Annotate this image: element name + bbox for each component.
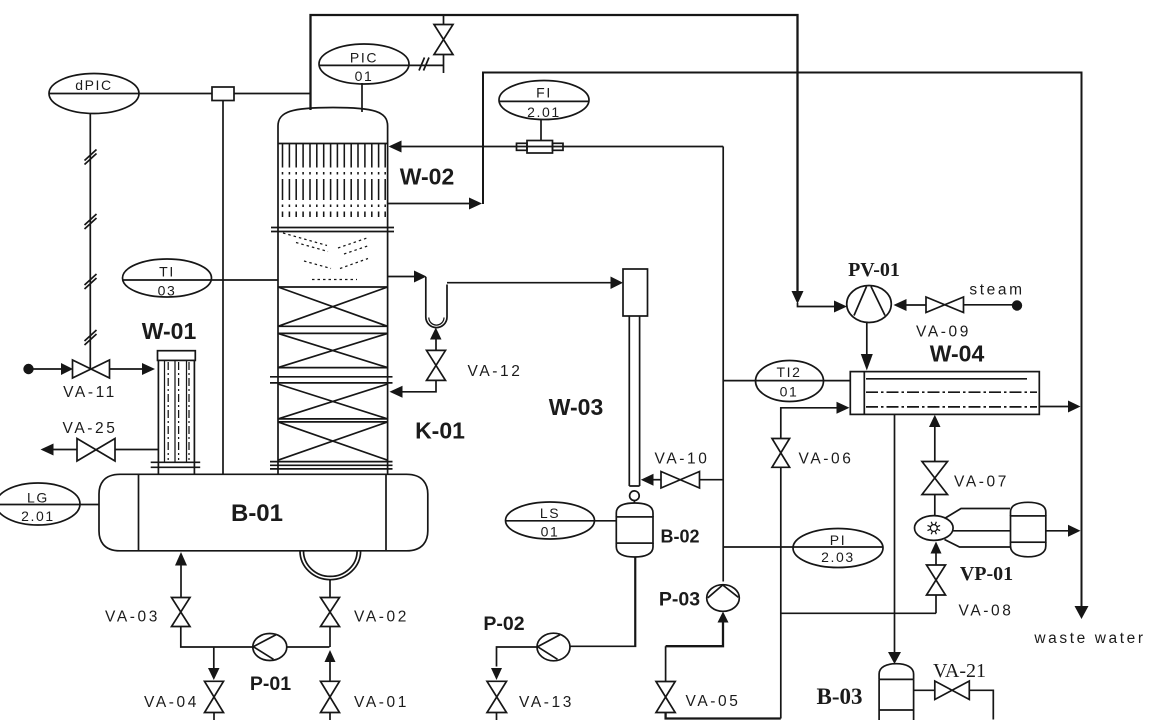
svg-text:VA-13: VA-13: [519, 694, 574, 711]
svg-text:VA-07: VA-07: [954, 474, 1009, 491]
svg-text:PI: PI: [830, 532, 846, 548]
svg-text:VA-06: VA-06: [799, 451, 854, 468]
svg-text:P-03: P-03: [659, 589, 700, 611]
svg-text:VA-01: VA-01: [354, 694, 409, 711]
svg-text:B-01: B-01: [231, 500, 283, 527]
svg-text:K-01: K-01: [415, 418, 465, 444]
svg-text:B-03: B-03: [817, 684, 863, 709]
svg-text:waste water: waste water: [1033, 630, 1145, 647]
svg-text:01: 01: [541, 524, 560, 540]
svg-text:W-04: W-04: [930, 341, 985, 367]
svg-text:VA-10: VA-10: [655, 451, 710, 468]
svg-text:2.03: 2.03: [821, 549, 855, 565]
svg-text:P-02: P-02: [483, 613, 524, 635]
svg-text:VA-02: VA-02: [354, 609, 409, 626]
svg-text:VA-09: VA-09: [916, 324, 971, 341]
svg-text:W-03: W-03: [549, 394, 604, 420]
svg-text:P-01: P-01: [250, 673, 291, 695]
svg-text:VA-11: VA-11: [63, 384, 117, 401]
svg-text:2.01: 2.01: [21, 508, 55, 524]
svg-text:TI2: TI2: [776, 364, 801, 380]
svg-text:VA-04: VA-04: [144, 694, 199, 711]
svg-text:LS: LS: [540, 505, 560, 521]
svg-text:PIC: PIC: [350, 50, 378, 66]
svg-text:VA-25: VA-25: [63, 420, 118, 437]
svg-text:steam: steam: [969, 282, 1024, 299]
svg-text:PV-01: PV-01: [848, 259, 900, 281]
svg-text:2.01: 2.01: [527, 104, 561, 120]
svg-text:VA-08: VA-08: [959, 603, 1014, 620]
svg-text:VA-03: VA-03: [105, 609, 160, 626]
svg-text:03: 03: [158, 283, 177, 299]
svg-text:TI: TI: [159, 264, 175, 280]
svg-text:VP-01: VP-01: [960, 563, 1013, 585]
svg-text:W-02: W-02: [400, 164, 455, 190]
svg-text:FI: FI: [536, 85, 552, 101]
svg-text:VA-05: VA-05: [686, 693, 741, 710]
svg-text:LG: LG: [27, 490, 49, 506]
svg-text:dPIC: dPIC: [75, 77, 113, 93]
svg-text:01: 01: [780, 384, 799, 400]
svg-text:01: 01: [355, 68, 374, 84]
svg-text:B-02: B-02: [660, 527, 699, 547]
svg-text:W-01: W-01: [142, 318, 197, 344]
svg-text:VA-21: VA-21: [933, 660, 986, 682]
svg-text:VA-12: VA-12: [468, 363, 523, 380]
